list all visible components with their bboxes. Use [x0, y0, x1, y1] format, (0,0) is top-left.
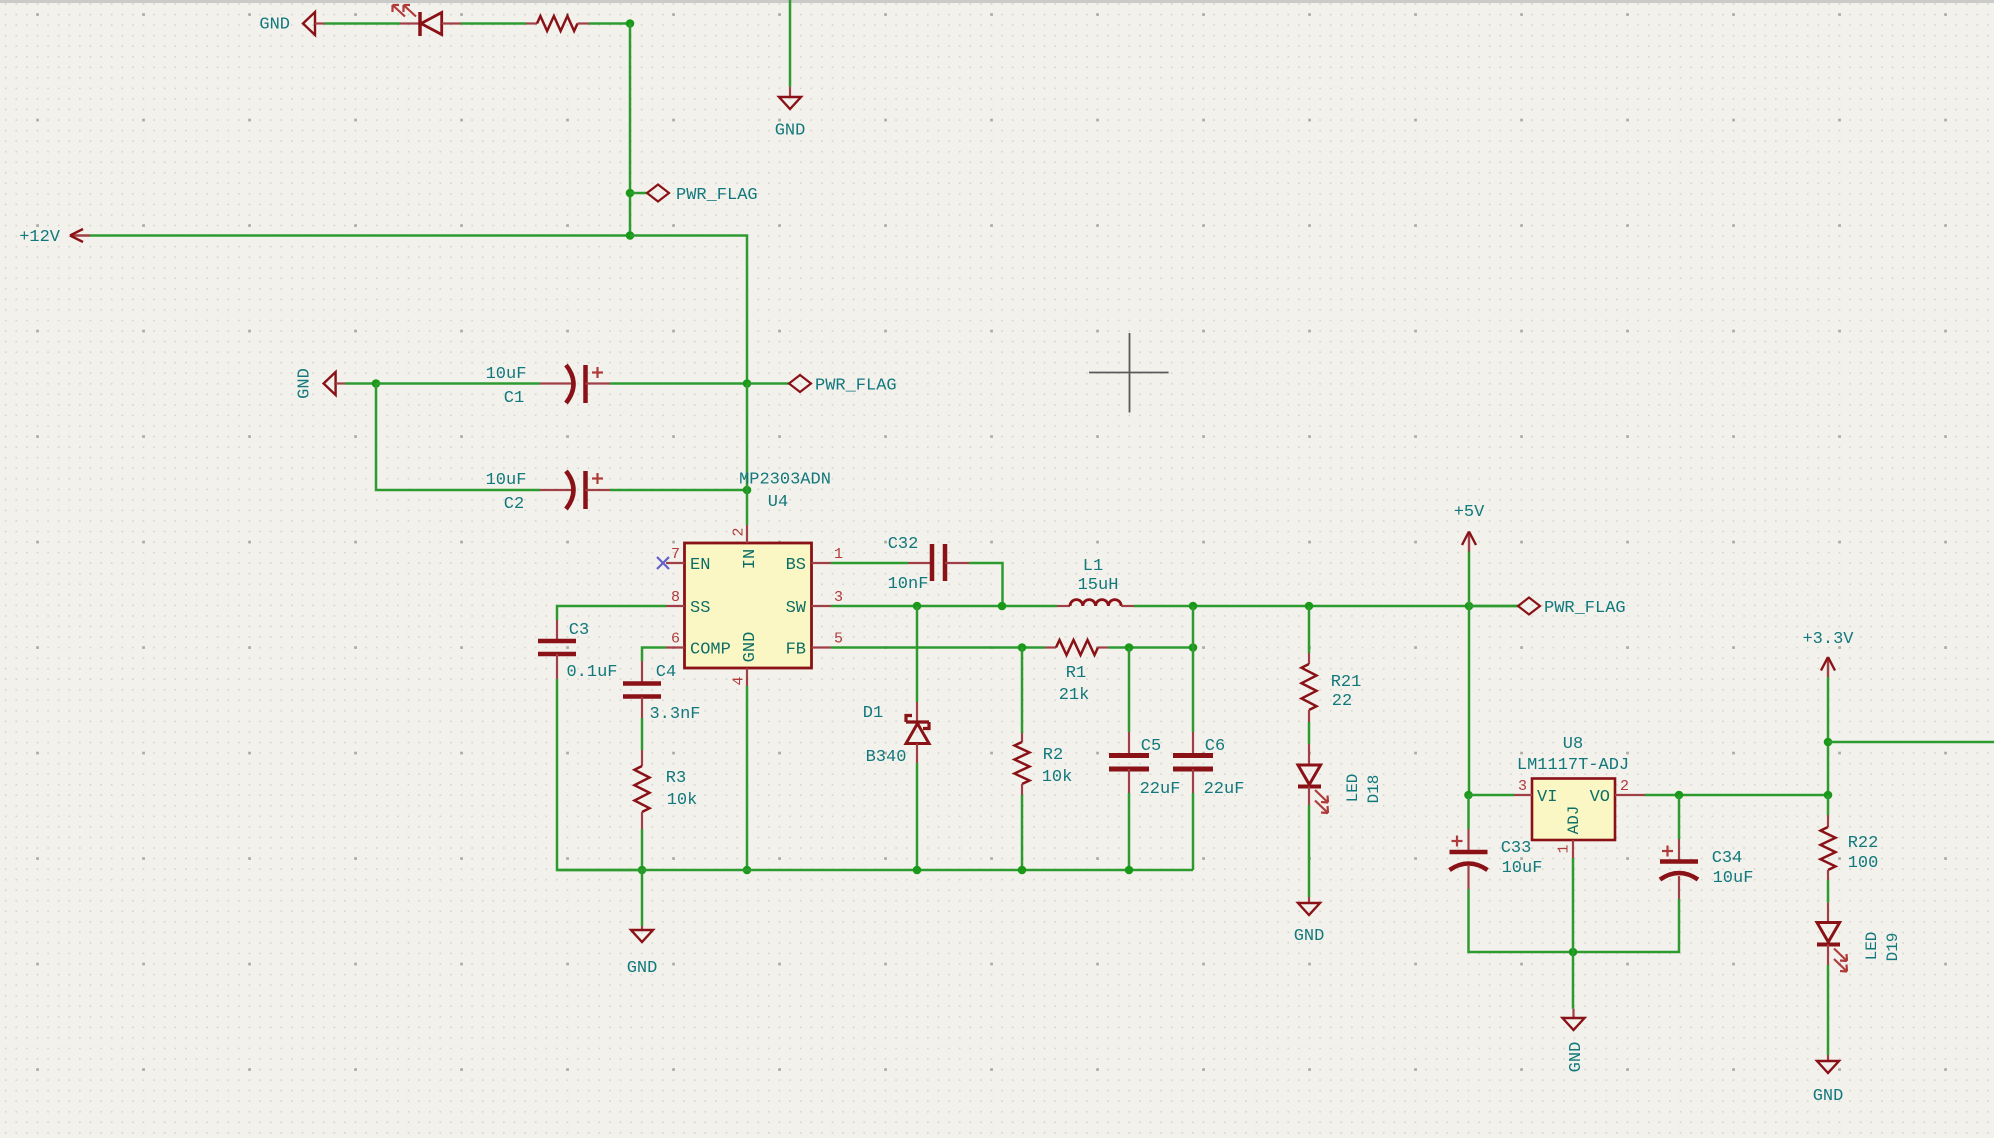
svg-text:D19: D19: [1884, 933, 1902, 962]
svg-text:C33: C33: [1501, 839, 1532, 858]
U8 pin 2 VO (right): [1615, 794, 1645, 796]
svg-text:FB: FB: [786, 641, 806, 660]
wire: [641, 829, 644, 870]
junction: [743, 486, 752, 495]
svg-text:8: 8: [671, 589, 680, 606]
svg-text:R3: R3: [666, 769, 686, 788]
junction: [1465, 602, 1474, 611]
wire C6 branch: [1192, 606, 1195, 732]
svg-text:MP2303ADN: MP2303ADN: [739, 471, 831, 490]
LED D18: [1308, 744, 1310, 765]
resistor R22 100: [1827, 815, 1829, 827]
wire BS to C32: [831, 562, 908, 565]
wire: [557, 679, 642, 870]
capacitor C1 10uF (polarized): [376, 382, 540, 385]
svg-text:EN: EN: [690, 556, 710, 575]
svg-text:10k: 10k: [1042, 768, 1073, 787]
LED D17 (top, pointing left): [400, 22, 420, 24]
wire: [1827, 677, 1830, 795]
svg-text:C3: C3: [569, 621, 589, 640]
junction: [1464, 791, 1473, 800]
wire: [916, 763, 919, 870]
ground symbol GND (below D19): [1827, 1055, 1829, 1061]
svg-text:22: 22: [1332, 692, 1352, 711]
U8 pin 3 VI (left): [1469, 794, 1515, 797]
svg-text:1: 1: [1555, 844, 1572, 853]
wire ADJ down: [1572, 858, 1575, 1009]
junction: [372, 379, 381, 388]
capacitor C33 10uF (polarized): [1467, 795, 1470, 829]
U4 pin 6 COMP (left): [666, 646, 685, 648]
resistor R3 10k: [641, 750, 643, 766]
capacitor C32 10nF: [908, 562, 931, 564]
U4 pin 7 EN (left): [666, 562, 685, 564]
wire U4 GND pin to rail: [746, 686, 749, 870]
svg-text:GND: GND: [1294, 927, 1325, 946]
wire FB line: [831, 646, 1045, 649]
wire: [1573, 899, 1679, 952]
svg-text:4: 4: [730, 676, 747, 685]
junction: [1675, 791, 1684, 800]
wire: [969, 563, 1003, 606]
wire R21 branch: [1308, 606, 1311, 653]
wire COMP to C4: [642, 648, 666, 662]
junction: [1824, 738, 1833, 747]
U4 pin 4 GND (bottom): [746, 668, 748, 686]
wire: [1827, 795, 1830, 815]
svg-text:SW: SW: [786, 599, 807, 618]
svg-text:PWR_FLAG: PWR_FLAG: [676, 186, 758, 205]
wire R2 branch: [1021, 648, 1024, 734]
wire: [641, 718, 644, 750]
svg-text:22uF: 22uF: [1140, 780, 1181, 799]
svg-text:3.3nF: 3.3nF: [649, 705, 700, 724]
svg-text:+3.3V: +3.3V: [1802, 630, 1854, 649]
wire +5V down to U8: [1468, 606, 1471, 795]
svg-text:5: 5: [834, 631, 843, 648]
svg-text:0.1uF: 0.1uF: [566, 663, 617, 682]
svg-text:SS: SS: [690, 599, 710, 618]
svg-text:21k: 21k: [1059, 686, 1090, 705]
junction: [1305, 602, 1314, 611]
LED D19: [1827, 903, 1829, 923]
wire: [610, 382, 747, 385]
svg-text:PWR_FLAG: PWR_FLAG: [1544, 599, 1626, 618]
wire: [746, 384, 749, 526]
wire C5 branch: [1128, 648, 1131, 733]
junction: [1824, 791, 1833, 800]
svg-text:22uF: 22uF: [1204, 780, 1245, 799]
wire: [461, 22, 526, 25]
svg-text:LM1117T-ADJ: LM1117T-ADJ: [1517, 756, 1629, 775]
resistor R2 10k: [1021, 733, 1023, 742]
svg-text:GND: GND: [296, 368, 315, 399]
wire: [325, 22, 401, 25]
svg-text:2: 2: [1620, 778, 1629, 795]
junction: [1125, 866, 1134, 875]
svg-text:GND: GND: [1813, 1087, 1844, 1106]
wire: [629, 24, 632, 237]
svg-text:C32: C32: [888, 535, 919, 554]
svg-text:C2: C2: [504, 495, 524, 514]
wire: [589, 22, 630, 25]
junction: [743, 379, 752, 388]
wire: [1192, 793, 1195, 870]
ground symbol GND (top middle): [789, 87, 791, 97]
wire SW line: [831, 605, 1057, 608]
inductor L1 15uH: [1057, 605, 1070, 607]
svg-text:R1: R1: [1066, 664, 1086, 683]
wire SS to C3: [557, 606, 666, 620]
svg-text:GND: GND: [627, 959, 658, 978]
U4 pin 2 IN (top): [746, 525, 748, 543]
svg-text:1: 1: [834, 546, 843, 563]
wire: [345, 382, 376, 385]
op-amp U4 MP2303ADN body: [685, 543, 812, 668]
svg-text:10uF: 10uF: [1713, 869, 1754, 888]
svg-text:10k: 10k: [667, 791, 698, 810]
diode D1 B340 (Schottky): [916, 702, 918, 722]
svg-text:7: 7: [671, 546, 680, 563]
wire: [376, 384, 540, 491]
wire: [1827, 965, 1830, 1055]
capacitor C3 0.1uF: [556, 620, 558, 641]
svg-text:BS: BS: [786, 556, 806, 575]
wire: [1468, 552, 1471, 607]
svg-text:C6: C6: [1205, 737, 1225, 756]
resistor R1 21k: [1045, 646, 1056, 648]
svg-text:+5V: +5V: [1454, 503, 1485, 522]
svg-text:GND: GND: [741, 632, 760, 663]
ground symbol GND (below U4): [641, 870, 644, 926]
svg-text:2: 2: [730, 527, 747, 536]
svg-text:PWR_FLAG: PWR_FLAG: [815, 377, 897, 396]
svg-text:+12V: +12V: [19, 228, 61, 247]
junction: [1018, 866, 1027, 875]
svg-text:3: 3: [834, 589, 843, 606]
junction: [626, 231, 635, 240]
svg-text:R2: R2: [1043, 746, 1063, 765]
capacitor C5 22uF: [1128, 732, 1130, 755]
no-connect X on EN: [657, 557, 669, 569]
svg-text:3: 3: [1518, 778, 1527, 795]
wire VO line: [1645, 794, 1828, 797]
resistor R21 22: [1308, 653, 1310, 664]
junction: [1189, 643, 1198, 652]
svg-text:GND: GND: [1567, 1042, 1586, 1073]
svg-text:10uF: 10uF: [486, 365, 527, 384]
svg-text:15uH: 15uH: [1078, 576, 1119, 595]
svg-text:R21: R21: [1331, 673, 1362, 692]
svg-text:COMP: COMP: [690, 641, 731, 660]
svg-text:L1: L1: [1083, 557, 1103, 576]
junction: [913, 866, 922, 875]
svg-text:10uF: 10uF: [1502, 859, 1543, 878]
ground symbol GND (below U8): [1572, 1009, 1574, 1018]
wire: [789, 0, 792, 87]
wire: [1827, 880, 1830, 903]
wire: [610, 489, 747, 492]
svg-text:10nF: 10nF: [888, 575, 929, 594]
junction: [1569, 948, 1578, 957]
svg-text:U4: U4: [768, 493, 788, 512]
wire: [916, 606, 919, 702]
svg-text:D1: D1: [863, 704, 883, 723]
svg-text:C1: C1: [504, 389, 524, 408]
junction: [913, 602, 922, 611]
svg-text:D18: D18: [1365, 775, 1383, 804]
wire +3.3V out to right edge: [1828, 741, 1994, 744]
power flag PWR_FLAG (upper): [626, 189, 635, 198]
svg-text:GND: GND: [775, 122, 806, 141]
capacitor C4 3.3nF: [641, 661, 643, 683]
svg-text:IN: IN: [741, 549, 760, 569]
U4 pin 8 SS (left): [666, 605, 685, 607]
ground symbol GND (below D18): [1308, 897, 1310, 903]
U8 pin 1 ADJ (bottom): [1572, 840, 1574, 858]
wire: [1308, 805, 1311, 897]
power flag PWR_FLAG (middle): [747, 382, 789, 385]
wire: [1469, 889, 1574, 952]
junction: [743, 866, 752, 875]
svg-text:VI: VI: [1537, 788, 1557, 807]
wire: [1021, 795, 1024, 870]
svg-text:C4: C4: [656, 663, 676, 682]
svg-text:LED: LED: [1863, 932, 1881, 961]
svg-text:GND: GND: [259, 16, 290, 35]
svg-text:R22: R22: [1848, 834, 1879, 853]
junction: [1125, 643, 1134, 652]
wire: [1308, 722, 1311, 744]
svg-text:C5: C5: [1141, 737, 1161, 756]
U4 pin 5 FB (right): [812, 646, 832, 648]
junction: [638, 866, 647, 875]
power flag PWR_FLAG (right): [1469, 605, 1518, 608]
svg-text:VO: VO: [1590, 788, 1610, 807]
svg-text:100: 100: [1848, 854, 1879, 873]
svg-text:LED: LED: [1344, 774, 1362, 803]
wire: [1128, 793, 1131, 870]
svg-text:10uF: 10uF: [486, 471, 527, 490]
svg-text:ADJ: ADJ: [1565, 806, 1583, 835]
wire ground rail: [557, 869, 1193, 872]
wire: [1108, 646, 1193, 649]
wire: [630, 236, 747, 385]
junction: [998, 602, 1007, 611]
capacitor C6 22uF: [1192, 732, 1194, 755]
junction: [1018, 643, 1027, 652]
wire: [1134, 605, 1518, 608]
capacitor C2 10uF (polarized): [540, 489, 572, 491]
wire +12V net: [90, 234, 630, 237]
svg-text:B340: B340: [866, 748, 907, 767]
U4 pin 1 BS (right): [812, 562, 832, 564]
svg-text:U8: U8: [1563, 735, 1583, 754]
origin cross marker: [1089, 372, 1169, 374]
regulator U8 LM1117T-ADJ body: [1532, 779, 1615, 841]
U4 pin 3 SW (right): [812, 605, 832, 607]
junction: [1189, 602, 1198, 611]
svg-text:6: 6: [671, 631, 680, 648]
top window edge: [0, 0, 1994, 3]
svg-text:C34: C34: [1712, 849, 1743, 868]
junction: [626, 19, 635, 28]
capacitor C34 10uF (polarized): [1678, 795, 1681, 839]
resistor (top): [526, 22, 537, 24]
